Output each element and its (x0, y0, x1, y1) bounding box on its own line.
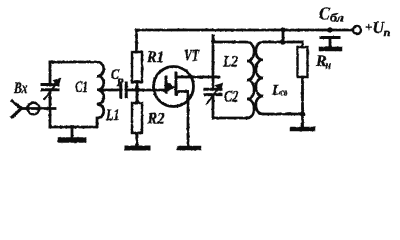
C2 label (224, 89, 239, 106)
channel bar (175, 73, 178, 95)
svg-text:С2: С2 (224, 89, 239, 106)
R2 label (147, 111, 165, 128)
capacitor C2 (205, 84, 223, 105)
wire coil tap to Cp (99, 89, 120, 92)
gate bar (165, 77, 168, 92)
wire R2 to ground (136, 133, 139, 146)
junction dot Сбл on rail (327, 27, 332, 32)
L2 label (222, 54, 238, 71)
wire tank top edge (50, 61, 97, 64)
Сбл label (319, 4, 344, 25)
resistor R1 (132, 52, 142, 82)
terminal +Un (353, 26, 361, 34)
svg-text:R1: R1 (146, 49, 164, 66)
ground (input tank) (61, 137, 84, 143)
+Un label (365, 18, 391, 39)
C1 label (75, 79, 88, 96)
transistor VT (JFET) (154, 67, 194, 107)
ground (source) (179, 146, 199, 151)
resistor R2 (132, 103, 142, 133)
svg-text:R2: R2 (147, 111, 165, 128)
input terminal arrow (12, 101, 28, 117)
Lсв label (271, 83, 288, 99)
ground (Сбл) (321, 47, 340, 52)
wire input to tank (27, 107, 55, 110)
wire output box top edge (263, 41, 303, 44)
wire R1 to gate node (136, 82, 139, 90)
L1 label (105, 107, 119, 124)
svg-text:св: св (281, 88, 288, 99)
wire Rн top lead (301, 42, 304, 47)
ground (R2) (127, 146, 148, 151)
R1 label (146, 49, 164, 66)
capacitor C1 (42, 79, 61, 100)
svg-text:Вх: Вх (13, 80, 27, 97)
ground (output) (292, 127, 313, 132)
gate arrow (167, 83, 175, 92)
Cp label (111, 67, 124, 87)
svg-text:бл: бл (330, 13, 344, 25)
svg-text:L2: L2 (222, 54, 238, 71)
wire supply stub to output box (282, 30, 285, 42)
svg-text:L1: L1 (105, 107, 119, 124)
wire Rн bottom lead (301, 77, 304, 114)
junction dot (70, 125, 75, 130)
wire tank2 left branch (212, 42, 215, 89)
capacitor Сбл (321, 38, 339, 48)
inductor L2 (247, 42, 254, 118)
svg-text:н: н (326, 60, 332, 72)
wire Cp to gate node (127, 89, 166, 92)
Rн label (315, 53, 331, 72)
wire source down (187, 92, 190, 147)
wire top rail (137, 30, 353, 52)
VT label (184, 48, 200, 65)
svg-text:С1: С1 (75, 79, 88, 96)
resistor Rн (298, 47, 308, 77)
wire tank left branch (49, 62, 52, 84)
wire tank bottom edge (50, 126, 97, 129)
svg-text:+: + (365, 20, 372, 35)
wire tank2 top edge (213, 41, 247, 44)
junction dot on box top (280, 39, 285, 44)
junction dot on rail (280, 27, 285, 32)
svg-text:VT: VT (184, 48, 200, 65)
wire ground stub (71, 127, 74, 137)
svg-text:п: п (384, 27, 391, 39)
inductor L1 (97, 62, 104, 127)
input terminal circle (28, 103, 40, 115)
svg-text:L: L (271, 83, 281, 99)
wire ground stub output (301, 114, 304, 127)
source stub (176, 90, 188, 93)
wire stub above tank2 (212, 36, 215, 42)
wire drain to tank (193, 76, 219, 79)
svg-text:р: р (116, 75, 124, 87)
node Вх label (13, 80, 27, 97)
junction dot bottom (300, 111, 305, 116)
node gate junction (135, 87, 140, 92)
drain stub (176, 76, 193, 79)
wire gate node to R2 (136, 90, 139, 103)
wire output box bottom edge (263, 113, 303, 116)
inductor Lсв (256, 42, 263, 114)
wire tank2 bottom edge (213, 117, 247, 120)
capacitor Cp (121, 83, 126, 97)
